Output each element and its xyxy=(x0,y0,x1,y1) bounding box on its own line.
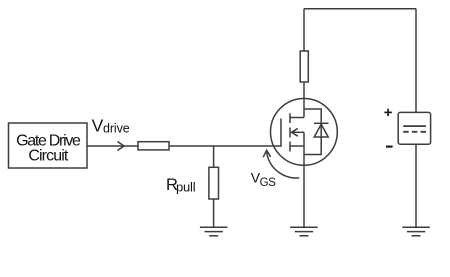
svg-text:drive: drive xyxy=(103,122,130,136)
svg-text:V: V xyxy=(92,116,104,136)
svg-text:pull: pull xyxy=(176,180,196,195)
svg-text:Circuit: Circuit xyxy=(28,147,68,164)
svg-text:GS: GS xyxy=(260,177,277,189)
